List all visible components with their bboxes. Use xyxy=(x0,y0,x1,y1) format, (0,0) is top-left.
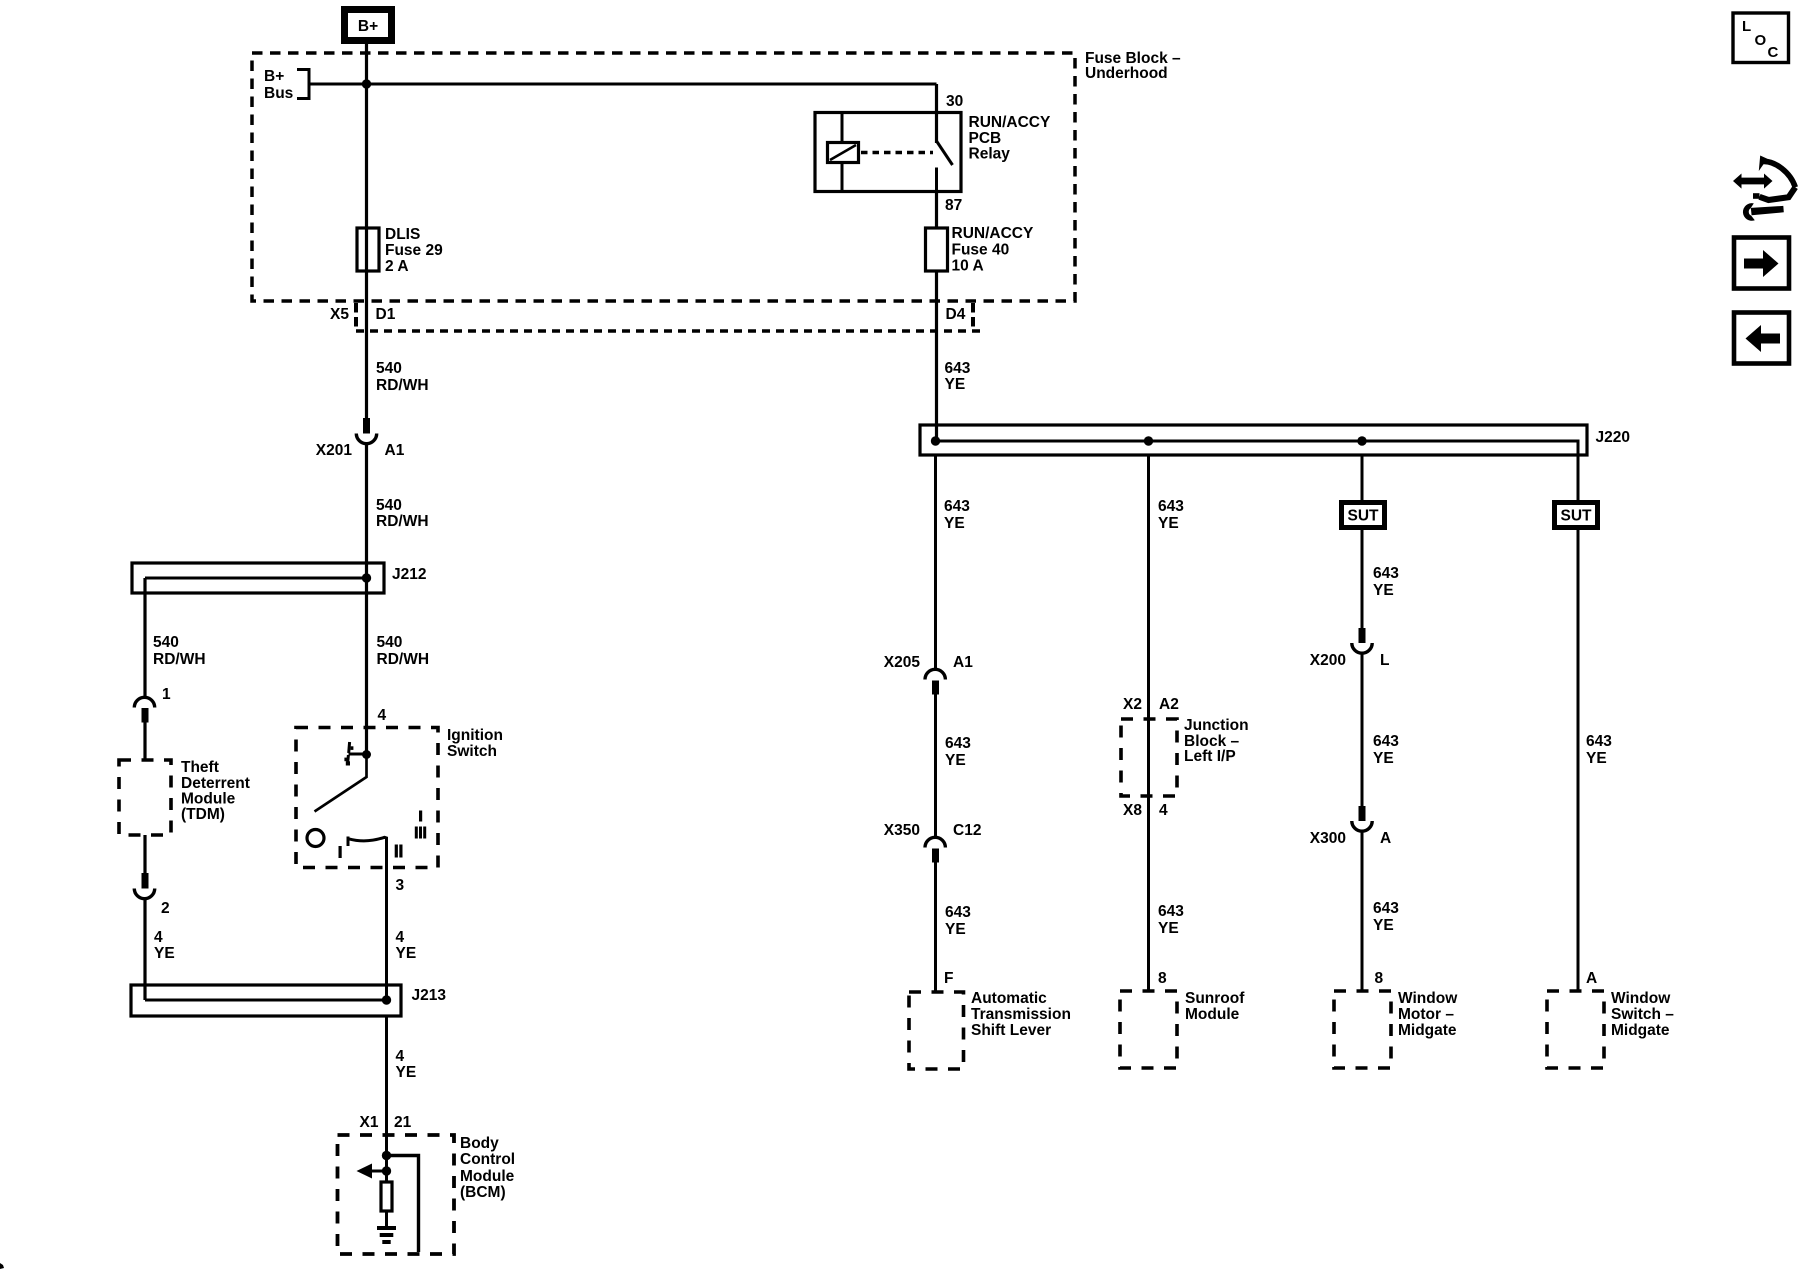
relay switch lower stub xyxy=(935,168,938,192)
svg-text:Left I/P: Left I/P xyxy=(1184,748,1236,765)
Theft Deterrent Module label xyxy=(181,759,250,823)
svg-text:Shift Lever: Shift Lever xyxy=(971,1022,1051,1039)
svg-text:Window: Window xyxy=(1398,990,1458,1007)
svg-text:RD/WH: RD/WH xyxy=(376,377,429,394)
svg-text:L: L xyxy=(1380,652,1389,669)
connector strip bottom dashed line xyxy=(356,329,985,332)
svg-text:YE: YE xyxy=(396,1064,417,1081)
junction dot J220 mid xyxy=(1144,436,1153,445)
fuse F29 symbol xyxy=(357,228,379,271)
svg-text:Module: Module xyxy=(181,791,236,808)
wire label 4 YE (to BCM) xyxy=(396,1048,417,1081)
svg-text:Theft: Theft xyxy=(181,759,219,776)
svg-text:X5: X5 xyxy=(330,306,349,323)
svg-text:2: 2 xyxy=(161,900,170,917)
wire SUT1 to X200 xyxy=(1361,530,1364,628)
svg-text:O: O xyxy=(1755,32,1767,49)
svg-text:8: 8 xyxy=(1375,970,1384,987)
svg-text:Deterrent: Deterrent xyxy=(181,775,250,792)
svg-text:Module: Module xyxy=(460,1168,515,1185)
svg-text:RUN/ACCY: RUN/ACCY xyxy=(969,114,1051,131)
junction dot J220 right xyxy=(1357,436,1366,445)
wire J220 to X205 xyxy=(934,455,937,669)
wire label 643 YE (col1 below J220) xyxy=(944,498,970,532)
svg-text:Switch: Switch xyxy=(447,743,497,760)
svg-text:YE: YE xyxy=(1373,750,1394,767)
ignition switch movable arm xyxy=(315,755,367,812)
svg-text:YE: YE xyxy=(1158,515,1179,532)
svg-text:RD/WH: RD/WH xyxy=(377,651,430,668)
wire label 643 YE (below fuse 40) xyxy=(945,360,971,393)
Automatic Transmission Shift Lever dashed box xyxy=(909,992,964,1069)
fuse 40 label RUN/ACCY Fuse 40 10 A xyxy=(952,225,1034,275)
svg-text:Control: Control xyxy=(460,1151,515,1168)
svg-text:Relay: Relay xyxy=(969,146,1011,163)
splice pack J212 bus bar xyxy=(145,577,367,580)
fuse 29 value label DLIS Fuse 29 2 A xyxy=(385,226,443,275)
Window Switch - Midgate dashed box xyxy=(1547,991,1604,1068)
wire label 643 YE (above F) xyxy=(945,904,971,938)
svg-text:Sunroof: Sunroof xyxy=(1185,990,1245,1007)
svg-text:SUT: SUT xyxy=(1348,508,1380,525)
Ignition Switch label xyxy=(447,727,503,760)
Junction Block - Left I/P dashed box xyxy=(1121,719,1177,796)
relay name label RUN/ACCY PCB Relay xyxy=(969,114,1051,163)
svg-text:Midgate: Midgate xyxy=(1398,1022,1457,1039)
relay coil lead top xyxy=(841,112,844,143)
svg-text:D1: D1 xyxy=(376,306,396,323)
relay coil lead bottom xyxy=(841,162,844,191)
relay coil diagonal xyxy=(830,145,856,160)
Sunroof Module label xyxy=(1185,990,1245,1023)
svg-text:Fuse 40: Fuse 40 xyxy=(952,242,1010,259)
SUT tag 1 xyxy=(1342,503,1385,528)
wire label 4 YE (left) xyxy=(154,929,175,962)
svg-text:C12: C12 xyxy=(953,822,981,839)
splice pack J212 box xyxy=(132,563,384,593)
wire J220 to junction block xyxy=(1147,455,1150,992)
Body Control Module label xyxy=(460,1135,515,1201)
Window Switch - Midgate label xyxy=(1611,990,1674,1039)
resistor R (BCM internal) xyxy=(381,1182,392,1211)
relay switch arm xyxy=(937,141,953,165)
svg-text:RUN/ACCY: RUN/ACCY xyxy=(952,225,1034,242)
Sunroof Module dashed box xyxy=(1120,991,1177,1068)
svg-text:643: 643 xyxy=(945,360,971,377)
wire SUT2 to window switch xyxy=(1577,530,1580,992)
svg-text:Switch –: Switch – xyxy=(1611,1006,1674,1023)
svg-text:(BCM): (BCM) xyxy=(460,1184,506,1201)
svg-text:YE: YE xyxy=(945,752,966,769)
svg-text:Fuse 29: Fuse 29 xyxy=(385,242,443,259)
svg-text:2 A: 2 A xyxy=(385,258,409,275)
svg-text:643: 643 xyxy=(945,735,971,752)
svg-text:3: 3 xyxy=(396,877,405,894)
svg-text:L: L xyxy=(1742,18,1751,35)
scan artifact bottom-left xyxy=(0,1263,4,1269)
wire B+ bus to relay pin 30 (horizontal) xyxy=(310,83,937,86)
ignition switch output contact arc xyxy=(348,837,387,868)
ignition detent mark xyxy=(419,811,422,822)
svg-text:YE: YE xyxy=(1373,917,1394,934)
svg-text:540: 540 xyxy=(376,497,402,514)
svg-text:X205: X205 xyxy=(884,654,921,671)
wire label 540 RD/WH (below X201) xyxy=(376,497,429,530)
wire label 540 RD/WH (below fuse 29) xyxy=(376,360,429,394)
svg-text:X200: X200 xyxy=(1310,652,1346,669)
wire label 643 YE (above motor) xyxy=(1373,900,1399,934)
connector X205 symbol xyxy=(925,669,945,694)
ground symbol (BCM) xyxy=(377,1228,396,1242)
ignition position mark II xyxy=(395,845,403,858)
svg-text:10 A: 10 A xyxy=(952,258,984,275)
svg-text:B+: B+ xyxy=(358,18,378,35)
svg-text:Junction: Junction xyxy=(1184,717,1249,734)
harness routing icon (double arrow + wrench squiggle) xyxy=(1733,156,1795,221)
LOC reference box xyxy=(1733,13,1789,63)
wire label 643 YE (below SUT1) xyxy=(1373,565,1399,599)
svg-text:A: A xyxy=(1380,830,1391,847)
ignition position mark I xyxy=(339,846,342,858)
BCM internal wire right-down xyxy=(387,1156,419,1253)
ignition switch input junction dot xyxy=(362,750,371,759)
Junction Block - Left I/P label xyxy=(1184,717,1249,765)
wire X300 to window motor xyxy=(1361,831,1364,992)
ignition switch fixed contact hook xyxy=(347,742,351,753)
svg-text:643: 643 xyxy=(1158,903,1184,920)
fuse F40 symbol xyxy=(926,228,948,271)
svg-text:Ignition: Ignition xyxy=(447,727,503,744)
Ignition Switch dashed box xyxy=(296,728,438,868)
svg-text:643: 643 xyxy=(1373,565,1399,582)
svg-text:X300: X300 xyxy=(1310,830,1346,847)
junction dot J220 left xyxy=(931,436,940,445)
svg-text:A1: A1 xyxy=(385,442,405,459)
svg-text:X1: X1 xyxy=(360,1114,379,1131)
wire J213 to BCM xyxy=(385,1016,388,1157)
svg-text:21: 21 xyxy=(394,1114,412,1131)
wire label 540 RD/WH (right branch) xyxy=(377,634,430,668)
svg-text:4: 4 xyxy=(1159,802,1168,819)
wire J212 left branch down to TDM pin 1 xyxy=(143,578,146,697)
svg-text:X350: X350 xyxy=(884,822,920,839)
svg-text:C: C xyxy=(1768,44,1779,61)
wire ignition switch pin 3 to J213 xyxy=(385,867,388,1000)
svg-text:SUT: SUT xyxy=(1561,508,1593,525)
wire fuse 40 down to J220 xyxy=(935,271,938,442)
BCM internal wire to resistor xyxy=(385,1155,388,1182)
svg-text:RD/WH: RD/WH xyxy=(376,513,429,530)
wire X200 to X300 xyxy=(1361,653,1364,806)
svg-text:540: 540 xyxy=(377,634,403,651)
connector at TDM pin 2 xyxy=(134,873,154,899)
wire label 643 YE (switch col) xyxy=(1586,733,1612,767)
wire label 643 YE (col2 below J220) xyxy=(1158,498,1184,532)
connector X350 symbol xyxy=(925,837,945,862)
connector X5 separator dashes xyxy=(354,303,358,327)
wire TDM box to pin 2 connector xyxy=(143,835,146,873)
svg-text:30: 30 xyxy=(946,93,963,110)
relay K (RUN/ACCY PCB Relay) box xyxy=(815,113,961,192)
relay actuating dashed link xyxy=(861,151,933,155)
svg-text:YE: YE xyxy=(944,515,965,532)
svg-text:(TDM): (TDM) xyxy=(181,806,225,823)
connector X200 symbol xyxy=(1352,628,1372,653)
svg-text:Bus: Bus xyxy=(264,85,293,102)
wire relay 87 to fuse 40 xyxy=(935,191,938,228)
svg-text:Body: Body xyxy=(460,1135,499,1152)
svg-text:D4: D4 xyxy=(946,306,966,323)
svg-text:643: 643 xyxy=(1586,733,1612,750)
svg-text:A2: A2 xyxy=(1159,696,1179,713)
wire B+ box down through fuse 29 to X201 xyxy=(365,40,368,418)
splice pack J220 box xyxy=(920,425,1587,455)
svg-text:Motor –: Motor – xyxy=(1398,1006,1454,1023)
svg-text:J212: J212 xyxy=(392,566,426,583)
svg-text:540: 540 xyxy=(376,360,402,377)
svg-text:Module: Module xyxy=(1185,1006,1240,1023)
ignition switch pivot circle xyxy=(307,830,324,847)
Window Motor - Midgate dashed box xyxy=(1334,991,1391,1068)
svg-text:J220: J220 xyxy=(1596,429,1630,446)
svg-text:B+: B+ xyxy=(264,68,284,85)
splice pack J220 bus bar xyxy=(936,441,1579,455)
svg-text:87: 87 xyxy=(945,197,962,214)
wire relay pin 30 xyxy=(935,84,938,143)
svg-text:DLIS: DLIS xyxy=(385,226,420,243)
ignition switch fixed contact line xyxy=(349,753,367,756)
svg-text:8: 8 xyxy=(1158,970,1167,987)
Automatic Transmission Shift Lever label xyxy=(971,990,1071,1039)
svg-text:540: 540 xyxy=(153,634,179,651)
svg-text:F: F xyxy=(944,970,953,987)
svg-text:Transmission: Transmission xyxy=(971,1006,1071,1023)
wire label 4 YE (right) xyxy=(396,929,417,962)
svg-text:Window: Window xyxy=(1611,990,1671,1007)
svg-text:YE: YE xyxy=(1373,582,1394,599)
svg-text:YE: YE xyxy=(396,945,417,962)
wire label 643 YE (above sunroof) xyxy=(1158,903,1184,937)
svg-text:RD/WH: RD/WH xyxy=(153,651,206,668)
wire label 643 YE (X205-X350) xyxy=(945,735,971,769)
wire X350 to shift lever xyxy=(934,863,937,993)
Body Control Module dashed box xyxy=(338,1135,455,1254)
relay coil box xyxy=(828,143,859,163)
wire TDM pin2 to J213 xyxy=(143,899,146,1001)
junction dot J212 xyxy=(362,573,371,582)
splice pack J213 box xyxy=(131,985,401,1016)
wire resistor to ground xyxy=(385,1211,388,1227)
junction dot at B+ bus / fuse 29 wire xyxy=(362,79,371,88)
svg-text:1: 1 xyxy=(162,686,171,703)
junction dot J213 xyxy=(382,995,391,1004)
connector X201 symbol xyxy=(356,418,376,444)
node B+ Bus xyxy=(264,68,309,102)
ignition position mark III xyxy=(415,827,426,839)
svg-text:643: 643 xyxy=(945,904,971,921)
Fuse Block - Underhood dashed box xyxy=(252,53,1075,301)
wire X201 to ignition switch xyxy=(365,444,368,757)
Window Motor - Midgate label xyxy=(1398,990,1458,1039)
connector X300 symbol xyxy=(1352,806,1372,831)
wire label 540 RD/WH (left branch) xyxy=(153,634,206,668)
svg-text:A: A xyxy=(1586,970,1597,987)
svg-text:YE: YE xyxy=(1158,920,1179,937)
svg-text:643: 643 xyxy=(944,498,970,515)
BCM internal junction dot lower xyxy=(382,1166,391,1175)
BCM internal junction dot upper xyxy=(382,1151,391,1160)
connector at TDM pin 1 xyxy=(134,697,154,722)
connector D4 separator dashes xyxy=(971,303,975,327)
svg-text:YE: YE xyxy=(154,945,175,962)
wire X205 to X350 xyxy=(934,694,937,837)
svg-text:643: 643 xyxy=(1158,498,1184,515)
svg-text:4: 4 xyxy=(396,1048,405,1065)
Theft Deterrent Module dashed box xyxy=(119,760,171,835)
svg-text:Underhood: Underhood xyxy=(1085,65,1168,82)
svg-text:YE: YE xyxy=(1586,750,1607,767)
svg-text:PCB: PCB xyxy=(969,130,1002,147)
svg-text:4: 4 xyxy=(396,929,405,946)
forward reference arrow box xyxy=(1734,238,1789,289)
svg-text:643: 643 xyxy=(1373,733,1399,750)
svg-text:X201: X201 xyxy=(316,442,353,459)
svg-text:J213: J213 xyxy=(412,987,447,1004)
wire label 643 YE (X200-X300) xyxy=(1373,733,1399,767)
B+ power feed box xyxy=(345,10,392,41)
SUT tag 2 xyxy=(1555,503,1598,528)
svg-text:X8: X8 xyxy=(1123,802,1142,819)
back reference arrow box xyxy=(1734,313,1789,364)
svg-text:Midgate: Midgate xyxy=(1611,1022,1670,1039)
svg-text:YE: YE xyxy=(945,921,966,938)
svg-text:4: 4 xyxy=(378,707,387,724)
svg-text:643: 643 xyxy=(1373,900,1399,917)
svg-text:YE: YE xyxy=(945,376,966,393)
svg-text:X2: X2 xyxy=(1123,696,1142,713)
svg-text:Automatic: Automatic xyxy=(971,990,1047,1007)
wire J220 to SUT 1 xyxy=(1361,455,1364,500)
svg-text:A1: A1 xyxy=(953,654,973,671)
Fuse Block - Underhood label xyxy=(1085,50,1181,82)
splice pack J213 bus bar xyxy=(145,999,387,1002)
svg-text:4: 4 xyxy=(154,929,163,946)
wire J220 to SUT 2 xyxy=(1577,455,1580,500)
BCM signal arrow xyxy=(357,1164,387,1179)
wire connector to TDM box xyxy=(143,722,146,760)
